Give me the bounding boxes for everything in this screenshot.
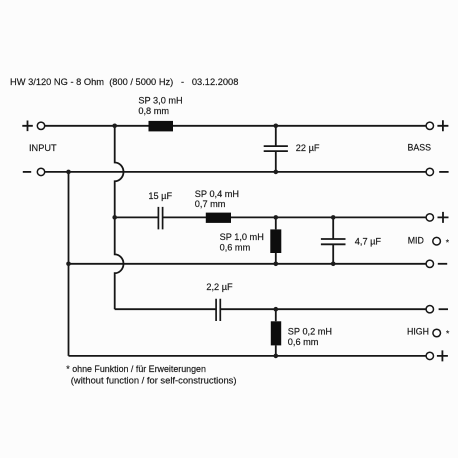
svg-text:HIGH: HIGH <box>407 326 429 336</box>
BASS plus sign <box>437 120 448 131</box>
node junction rail2-C1 <box>274 170 279 175</box>
node junction rail4-V2 <box>66 262 71 267</box>
node junction rail2-V2 <box>66 170 71 175</box>
MID minus terminal <box>426 260 433 267</box>
wire vertical V1 from rail1 to rail5 with hops <box>115 126 124 309</box>
inductor L1 SP 3,0 mH <box>149 121 174 131</box>
HIGH plus sign <box>437 350 448 361</box>
svg-text:INPUT: INPUT <box>29 143 57 153</box>
wire rail1 BASS plus <box>45 125 426 127</box>
wire rail5 HIGH top right segment <box>220 308 426 310</box>
node junction rail4-C3 <box>331 262 336 267</box>
input minus sign <box>23 171 31 173</box>
capacitor C4 2,2uF plates <box>216 299 220 321</box>
svg-text:(without function / for self-c: (without function / for self-constructio… <box>71 374 237 385</box>
input plus terminal <box>37 122 44 129</box>
HIGH minus terminal <box>426 306 433 313</box>
svg-text:22 µF: 22 µF <box>296 143 320 153</box>
wire vertical V2 from rail2 to rail6 <box>68 172 70 356</box>
svg-text:MID: MID <box>408 235 424 245</box>
node junction rail3-C3 <box>331 215 336 220</box>
node junction rail5-L4 <box>274 307 279 312</box>
svg-text:0,7 mm: 0,7 mm <box>195 199 226 209</box>
capacitor C2 15uF plates <box>158 207 162 230</box>
wire rail5 HIGH top left segment <box>115 308 216 310</box>
MID minus sign <box>438 263 447 265</box>
HIGH plus terminal <box>426 352 433 359</box>
node junction rail6-L4 <box>274 354 279 359</box>
MID plus terminal <box>426 214 433 221</box>
svg-text:2,2 µF: 2,2 µF <box>206 282 233 292</box>
input plus sign <box>22 121 33 132</box>
inductor L3 SP 1,0 mH <box>270 229 281 253</box>
capacitor C3 4,7uF branch wires <box>332 217 334 263</box>
wire rail4 MID minus <box>69 263 427 265</box>
svg-text:4,7 µF: 4,7 µF <box>355 237 382 247</box>
node junction rail1-C1 <box>274 124 279 129</box>
capacitor C1 22uF branch wires <box>275 126 277 172</box>
MID no-connect terminal <box>433 237 441 245</box>
wire rail3 MID plus right segment <box>163 216 427 218</box>
HIGH no-connect terminal <box>433 329 441 337</box>
svg-text:HW 3/120 NG - 8 Ohm (800 / 50: HW 3/120 NG - 8 Ohm (800 / 5000 Hz) - 03… <box>10 77 238 87</box>
node junction rail4-L3 <box>274 262 279 267</box>
svg-text:0,6 mm: 0,6 mm <box>220 242 251 252</box>
svg-text:* ohne Funktion / für Erweiter: * ohne Funktion / für Erweiterungen <box>66 364 206 374</box>
wire rail3 MID plus left segment <box>115 216 159 218</box>
BASS minus terminal <box>426 168 433 175</box>
svg-text:SP 3,0 mH: SP 3,0 mH <box>138 96 182 106</box>
svg-text:SP 0,4 mH: SP 0,4 mH <box>195 189 239 199</box>
node junction rail3-V1 <box>112 215 117 220</box>
svg-text:SP 1,0 mH: SP 1,0 mH <box>220 232 264 242</box>
wire rail6 HIGH bottom <box>69 355 427 357</box>
inductor L2 SP 0,4 mH <box>206 213 231 223</box>
HIGH minus sign <box>439 308 448 310</box>
svg-text:BASS: BASS <box>408 142 432 152</box>
BASS minus sign <box>439 171 448 173</box>
svg-text:SP 0,2 mH: SP 0,2 mH <box>288 326 332 336</box>
node junction rail1-V1 <box>112 124 117 129</box>
input minus terminal <box>37 168 44 175</box>
svg-text:15 µF: 15 µF <box>148 191 172 201</box>
MID plus sign <box>438 212 449 223</box>
BASS plus terminal <box>426 122 433 129</box>
inductor L4 SP 0,2 mH <box>271 321 281 345</box>
node junction rail3-L3 <box>274 215 279 220</box>
inductor L4 SP 0,2 mH branch wires <box>275 309 277 356</box>
wire rail2 BASS minus <box>45 171 426 173</box>
svg-text:0,8 mm: 0,8 mm <box>138 106 169 116</box>
inductor L3 SP 1,0 mH branch wires <box>275 217 277 263</box>
capacitor C1 22uF plates <box>264 146 288 151</box>
svg-text:0,6 mm: 0,6 mm <box>288 337 319 347</box>
capacitor C3 4,7uF plates <box>321 239 346 244</box>
